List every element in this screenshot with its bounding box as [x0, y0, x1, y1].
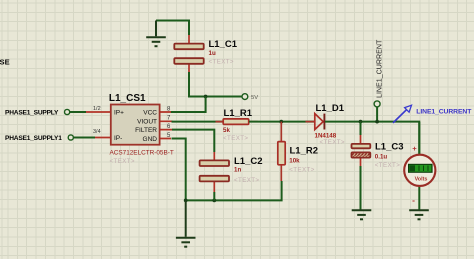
ground (under C3) — [352, 210, 372, 219]
svg-text:FILTER: FILTER — [135, 127, 157, 134]
terminal PHASE1_SUPPLY — [5, 109, 86, 116]
svg-text:3/4: 3/4 — [93, 129, 101, 135]
ground (bottom middle) — [176, 200, 196, 246]
svg-text:PHASE1_SUPPLY: PHASE1_SUPPLY — [5, 109, 59, 116]
wire pin5 GND down — [172, 139, 186, 201]
capacitor C3 — [352, 122, 404, 210]
node terminal LINE1_CURRENT — [374, 39, 384, 124]
voltmeter — [404, 122, 435, 210]
wire D1 to meter corner — [325, 122, 419, 155]
wire pin7 to R1 — [172, 121, 224, 123]
wire top ground to C1 — [156, 21, 189, 36]
svg-text:<TEXT>: <TEXT> — [209, 59, 234, 66]
svg-text:<TEXT>: <TEXT> — [110, 158, 135, 165]
svg-text:L1_CS1: L1_CS1 — [109, 93, 146, 104]
node junction C3 — [359, 120, 363, 124]
svg-text:L1_C3: L1_C3 — [375, 142, 404, 153]
svg-text:VCC: VCC — [143, 110, 157, 117]
ground (top left) — [146, 21, 166, 47]
svg-text:<TEXT>: <TEXT> — [320, 139, 345, 146]
svg-text:5V: 5V — [251, 95, 258, 101]
svg-text:L1_C1: L1_C1 — [209, 39, 238, 50]
current probe LINE1_CURRENT — [393, 105, 472, 123]
pin stubs right — [160, 112, 173, 139]
svg-text:Volts: Volts — [415, 177, 428, 183]
svg-text:<TEXT>: <TEXT> — [234, 177, 259, 184]
capacitor C1 — [174, 35, 237, 72]
svg-text:10k: 10k — [289, 158, 300, 165]
svg-text:LINE1_CURRENT: LINE1_CURRENT — [416, 108, 472, 115]
svg-text:-: - — [412, 195, 415, 205]
wire C2 bottom to rail — [213, 192, 215, 200]
svg-text:L1_R2: L1_R2 — [290, 145, 319, 156]
wire 5V rail to pin 8 — [171, 97, 206, 113]
svg-text:<TEXT>: <TEXT> — [223, 135, 248, 142]
capacitor C2 — [200, 152, 263, 192]
svg-text:PHASE1_SUPPLY1: PHASE1_SUPPLY1 — [5, 135, 62, 142]
wire ground rail — [186, 181, 282, 200]
svg-text:L1_R1: L1_R1 — [224, 108, 253, 119]
node junction C2 bottom — [212, 199, 216, 203]
svg-text:SE: SE — [0, 57, 10, 66]
node junction R2 top — [279, 120, 283, 124]
wire pin6 to C2 — [172, 130, 214, 152]
svg-text:<TEXT>: <TEXT> — [289, 167, 314, 174]
resistor R1 — [216, 108, 258, 142]
power terminal 5V — [242, 94, 258, 102]
svg-text:IP+: IP+ — [114, 109, 124, 116]
svg-text:0.1u: 0.1u — [375, 154, 388, 161]
node junction gnd corner — [184, 199, 188, 203]
wire R1 to D1 — [249, 121, 315, 123]
wire C1 to 5V rail — [189, 72, 242, 97]
svg-text:+: + — [412, 144, 417, 153]
svg-text:LINE1_CURRENT: LINE1_CURRENT — [376, 39, 384, 98]
terminal PHASE1_SUPPLY1 — [5, 135, 95, 142]
node junction VCC riser — [204, 95, 208, 99]
svg-text:L1_D1: L1_D1 — [316, 103, 345, 114]
svg-text:1n: 1n — [234, 166, 241, 173]
svg-text:IP-: IP- — [114, 135, 122, 142]
svg-text:ACS712ELCTR-05B-T: ACS712ELCTR-05B-T — [110, 149, 174, 156]
svg-text:1u: 1u — [209, 50, 216, 57]
IC L1_CS1 — [86, 93, 174, 165]
pin stubs left — [86, 112, 111, 138]
svg-text:1/2: 1/2 — [93, 106, 101, 112]
resistor R2 — [278, 122, 318, 181]
diode D1 — [306, 103, 345, 146]
svg-text:GND: GND — [143, 136, 158, 143]
svg-text:<TEXT>: <TEXT> — [375, 162, 400, 169]
svg-text:5k: 5k — [223, 127, 230, 134]
ground (under voltmeter) — [409, 210, 429, 219]
svg-text:VIOUT: VIOUT — [137, 119, 157, 126]
